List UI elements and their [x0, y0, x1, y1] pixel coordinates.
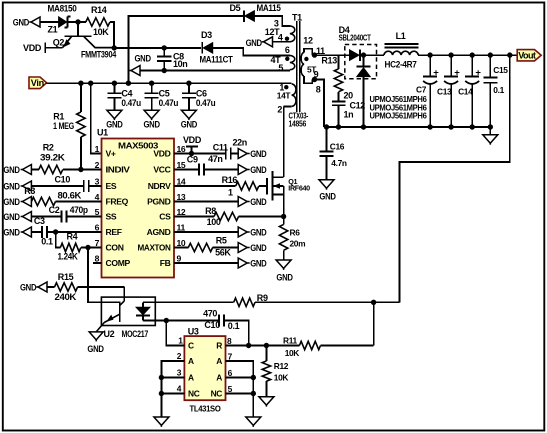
svg-text:COMP: COMP: [106, 258, 131, 268]
wire T1 pin2 to Q1 drain: [283, 106, 285, 177]
svg-text:R15: R15: [58, 272, 74, 282]
capacitor C9 47n: [174, 169, 199, 171]
stub pin8 COMP: [93, 262, 102, 264]
diode D4 SBL2040CT dual schottky: [345, 45, 377, 79]
wire Z1 anode: [40, 21, 59, 23]
phasing dot 4T: [285, 57, 289, 61]
svg-text:R2: R2: [43, 142, 54, 152]
svg-text:C15: C15: [493, 65, 508, 75]
wire LED anode to R9: [143, 301, 155, 303]
svg-text:12: 12: [177, 207, 186, 217]
svg-text:GND: GND: [250, 259, 267, 269]
svg-text:SS: SS: [106, 212, 117, 222]
svg-text:GND: GND: [181, 120, 198, 130]
svg-text:1 MEG: 1 MEG: [53, 121, 74, 131]
ground GND of opto emitter: [89, 332, 103, 340]
svg-text:MOC217: MOC217: [122, 329, 149, 339]
wire Vout rail: [418, 54, 517, 56]
node Vout rail: [488, 52, 493, 57]
transformer T1 core: [296, 21, 298, 112]
svg-text:U3: U3: [188, 326, 199, 336]
winding 4T pins 6-5: [290, 55, 295, 69]
svg-text:0.1: 0.1: [228, 321, 240, 331]
node Vout rail: [470, 52, 475, 57]
power VDD at pin16: [174, 153, 225, 155]
ground GND pin4: [21, 201, 23, 203]
wire R15 to opto collector: [123, 287, 125, 301]
ground GND of R6: [276, 260, 291, 268]
svg-text:4: 4: [95, 192, 100, 202]
wire LED cathode out: [143, 320, 166, 322]
svg-text:R12: R12: [274, 361, 289, 371]
resistor R14 10K: [78, 21, 86, 23]
svg-text:GND: GND: [144, 120, 161, 130]
svg-text:R4: R4: [67, 232, 78, 242]
winding 5T pins 12-11-9-8 secondary: [301, 52, 304, 76]
wire CON node to opto base: [88, 248, 101, 303]
svg-text:FB: FB: [160, 258, 171, 268]
svg-text:C13: C13: [437, 86, 452, 96]
svg-text:C10: C10: [204, 320, 220, 330]
svg-text:UPMOJ561MPH6: UPMOJ561MPH6: [370, 112, 428, 121]
svg-text:GND: GND: [319, 192, 336, 202]
ground GND pin6: [21, 231, 23, 233]
resistor R11 10K: [299, 341, 320, 349]
ground GND at T1 pin4: [262, 41, 264, 43]
ground GND of R15: [36, 286, 38, 288]
svg-text:GND: GND: [13, 18, 30, 28]
node Q1 source / CS: [281, 214, 286, 219]
svg-text:NC: NC: [188, 389, 200, 399]
svg-text:15: 15: [177, 160, 186, 170]
svg-text:+: +: [454, 67, 460, 78]
wire Vin rail: [47, 82, 292, 84]
svg-text:GND: GND: [250, 149, 267, 159]
node R1/R2/INDIV: [78, 167, 83, 172]
node pin9: [312, 77, 317, 82]
svg-text:14: 14: [177, 177, 186, 187]
svg-text:FMMT3904: FMMT3904: [81, 50, 116, 60]
ground GND pin11: [174, 231, 238, 233]
svg-text:C11: C11: [213, 142, 228, 152]
capacitor C10 470/0.1 feedback: [166, 320, 219, 322]
svg-text:1n: 1n: [344, 109, 354, 119]
svg-text:GND: GND: [250, 165, 267, 175]
svg-text:8: 8: [95, 254, 100, 264]
resistor R1 1MEG: [80, 83, 82, 112]
svg-text:IRF640: IRF640: [288, 183, 310, 192]
transistor Q1 IRF640: [266, 178, 268, 195]
svg-text:GND: GND: [135, 54, 152, 64]
svg-text:GND: GND: [3, 197, 20, 207]
svg-text:14856: 14856: [289, 119, 307, 129]
svg-text:MA8150: MA8150: [48, 4, 77, 14]
svg-text:GND: GND: [3, 182, 20, 192]
resistor R4 1.24K: [56, 232, 61, 248]
svg-text:D3: D3: [201, 30, 212, 40]
ground GND of C8 / T1 pin5 line: [129, 70, 131, 72]
capacitor C6 0.47u: [188, 83, 190, 93]
resistor R9: [155, 301, 233, 303]
svg-text:L1: L1: [396, 31, 406, 41]
wire D4 to L1: [360, 54, 384, 56]
ground GND pin5: [21, 216, 23, 218]
node C4: [112, 81, 117, 86]
node Z1/R14/Q2-base: [75, 19, 80, 24]
node ground rail: [361, 124, 366, 129]
node R14/Q2-collector: [112, 45, 117, 50]
node CON/R4/opto: [85, 245, 90, 250]
node Vout rail: [507, 52, 512, 57]
svg-text:8: 8: [316, 85, 321, 95]
wire D5 anode to T1 pin 3: [254, 16, 290, 26]
svg-text:4.7n: 4.7n: [331, 158, 347, 168]
svg-text:100: 100: [207, 217, 221, 227]
node top-rail riser: [126, 81, 131, 86]
ground GND pin13: [174, 201, 238, 203]
ground GND pin3: [21, 185, 23, 187]
node R9/R11 branch: [371, 300, 376, 305]
capacitor C13 electrolytic 561u: [450, 55, 452, 76]
svg-text:U1: U1: [97, 128, 108, 138]
svg-text:SBL2040CT: SBL2040CT: [339, 33, 372, 43]
ground GND pin15: [238, 165, 247, 175]
node Vout rail: [427, 52, 432, 57]
node C8 bottom: [162, 68, 167, 73]
resistor R15 240K: [48, 286, 55, 288]
svg-text:8: 8: [227, 336, 232, 346]
node R12: [264, 343, 269, 348]
svg-text:HC2-4R7: HC2-4R7: [385, 60, 417, 70]
wire Z1 cathode to node: [68, 21, 78, 23]
svg-text:CS: CS: [159, 212, 171, 222]
svg-text:6: 6: [285, 45, 290, 55]
svg-text:5: 5: [228, 384, 233, 394]
svg-text:MA115: MA115: [257, 3, 281, 13]
svg-text:C16: C16: [330, 141, 345, 151]
svg-text:C10: C10: [55, 175, 71, 185]
svg-text:GND: GND: [250, 243, 267, 253]
svg-text:GND: GND: [246, 38, 263, 48]
wire GND line to T1 pin 5: [140, 70, 290, 72]
svg-text:R6: R6: [290, 227, 301, 237]
opto LED: [142, 302, 144, 307]
wire R14 right lead down: [110, 22, 114, 48]
transistor Q2 FMMT3904: [77, 22, 79, 36]
winding 14T pins 1-2 primary: [292, 84, 296, 107]
ground GND of C4: [107, 110, 122, 118]
wire U3 pins 2-3-4 tie to ground: [161, 361, 184, 417]
wire secondary ground rail: [324, 126, 490, 128]
resistor R3 80.6K: [31, 197, 55, 205]
svg-text:+: +: [475, 67, 481, 78]
capacitor C16 4.7n: [326, 127, 328, 151]
svg-text:Z1: Z1: [48, 25, 58, 35]
svg-text:R9: R9: [257, 293, 268, 303]
wire Vout feedback to R9 line: [400, 55, 510, 302]
ground GND of U3 right pins: [246, 417, 261, 425]
node C8 top: [162, 45, 167, 50]
resistor R8 100: [174, 216, 214, 218]
svg-text:10: 10: [177, 238, 186, 248]
svg-text:C2: C2: [49, 205, 60, 215]
svg-text:GND: GND: [3, 212, 20, 222]
svg-text:7: 7: [95, 238, 100, 248]
svg-text:5: 5: [278, 63, 283, 73]
node pin11: [312, 52, 317, 57]
svg-text:39.2K: 39.2K: [40, 152, 65, 162]
svg-text:GND: GND: [3, 165, 20, 175]
svg-text:11: 11: [177, 223, 186, 233]
ground GND of R12: [259, 397, 274, 405]
bracket pin12 to pin11: [304, 49, 312, 56]
svg-text:+: +: [433, 67, 439, 78]
svg-text:6: 6: [228, 368, 233, 378]
ground GND pin16: [238, 149, 247, 159]
svg-text:1: 1: [228, 188, 233, 198]
node ground rail: [488, 124, 493, 129]
capacitor C4 0.47u: [113, 83, 115, 93]
diode D5 MA115: [243, 10, 245, 22]
node V+ riser: [88, 81, 93, 86]
resistor R6 20m: [283, 217, 285, 225]
svg-text:0.1: 0.1: [493, 85, 504, 95]
op-amp U1 MAX5003 controller: [102, 139, 175, 278]
resistor R12 10K: [265, 346, 267, 362]
svg-text:TL431SO: TL431SO: [190, 404, 222, 414]
svg-text:C7: C7: [416, 84, 427, 94]
svg-text:2: 2: [277, 105, 282, 115]
svg-text:Vin: Vin: [31, 78, 45, 88]
svg-text:6: 6: [95, 223, 100, 233]
svg-text:7: 7: [228, 351, 233, 361]
wire D3 anode to T1 pin 6: [213, 48, 290, 56]
svg-text:16: 16: [177, 144, 186, 154]
svg-text:R3: R3: [24, 186, 35, 196]
capacitor C5 0.47u: [151, 83, 153, 93]
svg-text:C9: C9: [187, 155, 198, 165]
svg-text:13: 13: [177, 192, 186, 202]
capacitor C2 470p: [31, 216, 61, 218]
svg-text:MA111CT: MA111CT: [200, 55, 234, 65]
svg-text:R16: R16: [222, 175, 238, 185]
svg-text:22n: 22n: [233, 138, 247, 148]
svg-text:470p: 470p: [70, 205, 89, 215]
node ground rail: [448, 124, 453, 129]
ground GND of secondary rail: [489, 127, 491, 135]
svg-text:A: A: [188, 356, 194, 366]
svg-text:10K: 10K: [93, 27, 109, 37]
node R1: [78, 81, 83, 86]
ground GND pin9 FB: [174, 262, 238, 264]
phasing dot 12T: [285, 37, 289, 41]
svg-text:GND: GND: [106, 120, 123, 130]
ground GND at Z1 anode: [29, 21, 31, 23]
capacitor C8 10n: [163, 48, 165, 56]
resistor R5 56K: [174, 247, 188, 249]
capacitor C3 0.1: [31, 231, 42, 233]
capacitor C11 22n: [225, 148, 227, 160]
capacitor C10 (ES): [31, 185, 84, 187]
wire Q2 collector node to D3: [114, 47, 201, 49]
svg-text:5: 5: [95, 207, 100, 217]
svg-text:10K: 10K: [274, 373, 289, 383]
wire LED cathode to U3 pin1: [166, 321, 184, 346]
wire V+ riser to pin 1: [91, 83, 102, 153]
inductor L1 HC2-4R7: [384, 51, 418, 55]
resistor R2 39.2K: [31, 169, 38, 171]
svg-text:MAXTON: MAXTON: [138, 243, 171, 253]
svg-text:A: A: [216, 356, 222, 366]
svg-text:GND: GND: [250, 228, 267, 238]
node C5: [149, 81, 154, 86]
svg-text:FREQ: FREQ: [106, 197, 129, 207]
svg-text:3: 3: [95, 177, 100, 187]
svg-text:10n: 10n: [173, 59, 187, 69]
svg-text:GND: GND: [250, 197, 267, 207]
resistor R13 20: [338, 55, 340, 69]
capacitor C12 1n: [332, 100, 346, 102]
svg-text:GND: GND: [276, 273, 293, 283]
diode D4b freewheel: [363, 55, 365, 66]
wire U3 pins 7-6-5 tie to ground: [226, 361, 254, 417]
phasing dot 14T: [284, 85, 288, 89]
svg-text:NDRV: NDRV: [148, 181, 171, 191]
svg-text:R: R: [216, 341, 222, 351]
svg-text:12: 12: [303, 36, 313, 46]
ground GND pin10: [238, 243, 247, 253]
capacitor C14 electrolytic 561u: [471, 55, 473, 76]
svg-text:C3: C3: [34, 216, 45, 226]
regulator U3 TL431SO: [184, 336, 225, 400]
port Vout: [517, 50, 541, 61]
diode D3 MA111CT: [201, 42, 203, 54]
svg-text:AGND: AGND: [147, 227, 171, 237]
svg-text:VDD: VDD: [153, 149, 170, 159]
svg-text:INDIV: INDIV: [106, 165, 131, 175]
node ground rail: [336, 124, 341, 129]
svg-text:R5: R5: [216, 235, 227, 245]
svg-text:A: A: [216, 373, 222, 383]
svg-text:VDD: VDD: [23, 43, 42, 53]
wire top rail from Vin riser to D5: [128, 16, 243, 83]
node ground rail: [427, 124, 432, 129]
svg-text:4: 4: [177, 384, 182, 394]
svg-text:Q2: Q2: [53, 37, 65, 47]
svg-text:ES: ES: [106, 181, 117, 191]
svg-text:VCC: VCC: [153, 165, 170, 175]
svg-text:GND: GND: [87, 344, 104, 354]
svg-text:C: C: [188, 341, 194, 351]
svg-text:A: A: [188, 373, 194, 383]
svg-text:1: 1: [95, 144, 100, 154]
node LED cathode: [164, 318, 169, 323]
ground GND of C6: [181, 110, 196, 118]
node ground rail: [324, 124, 329, 129]
svg-text:VDD: VDD: [183, 135, 202, 145]
svg-text:20: 20: [344, 91, 354, 101]
node C10 riser: [246, 343, 251, 348]
svg-text:20m: 20m: [290, 238, 306, 248]
power VDD at Q2 emitter: [45, 47, 62, 49]
wire R11 to feedback node: [373, 302, 375, 345]
svg-text:0.47u: 0.47u: [159, 98, 179, 108]
svg-text:47n: 47n: [208, 154, 222, 164]
node C3/R4: [53, 229, 58, 234]
svg-text:T1: T1: [292, 13, 302, 23]
svg-text:0.1: 0.1: [41, 236, 53, 246]
opto transistor: [119, 302, 121, 322]
svg-text:2: 2: [95, 160, 100, 170]
svg-text:0.47u: 0.47u: [196, 98, 216, 108]
svg-text:V+: V+: [106, 149, 116, 159]
svg-text:PGND: PGND: [147, 197, 171, 207]
opto-coupler U2 MOC217: [101, 297, 155, 325]
svg-text:14T: 14T: [277, 91, 292, 101]
svg-text:R14: R14: [91, 5, 107, 15]
svg-text:U2: U2: [104, 329, 115, 339]
svg-text:GND: GND: [20, 283, 37, 293]
svg-text:GND: GND: [3, 228, 20, 238]
svg-text:C14: C14: [458, 86, 473, 96]
svg-text:R11: R11: [283, 336, 298, 346]
capacitor C7 electrolytic 561u: [429, 55, 431, 76]
ground GND of C5: [144, 110, 159, 118]
node C6: [186, 81, 191, 86]
svg-text:R8: R8: [205, 206, 216, 216]
svg-text:NC: NC: [211, 389, 223, 399]
ground GND of U3 left pins: [154, 417, 169, 425]
ground GND of C16: [319, 180, 334, 188]
svg-text:56K: 56K: [215, 248, 231, 258]
svg-text:R13: R13: [321, 55, 337, 65]
diode D4a forward: [350, 50, 360, 61]
svg-text:D5: D5: [230, 3, 241, 13]
svg-text:3: 3: [177, 368, 182, 378]
svg-text:10K: 10K: [285, 348, 300, 358]
phasing dot 5T: [304, 57, 308, 61]
svg-text:80.6K: 80.6K: [58, 190, 82, 200]
ground GND pin2: [21, 169, 23, 171]
node Vout rail: [448, 52, 453, 57]
svg-text:0.47u: 0.47u: [121, 98, 140, 108]
capacitor C15 0.1: [489, 55, 491, 77]
svg-text:240K: 240K: [55, 292, 77, 302]
node D4 junction: [361, 52, 366, 57]
wire pin9 to secondary ground rail: [312, 80, 324, 128]
node ground rail: [470, 124, 475, 129]
svg-text:Vout: Vout: [518, 50, 536, 60]
winding 12T pins 3-4: [290, 26, 295, 42]
svg-text:REF: REF: [106, 227, 122, 237]
bracket pin9 to pin8: [304, 76, 312, 83]
svg-text:1: 1: [178, 336, 183, 346]
svg-text:CON: CON: [106, 243, 124, 253]
svg-text:4: 4: [278, 33, 283, 43]
svg-text:9: 9: [177, 254, 182, 264]
svg-text:1.24K: 1.24K: [58, 252, 79, 262]
resistor R16 1: [174, 185, 236, 187]
port Vin: [29, 77, 47, 89]
svg-text:2: 2: [177, 351, 182, 361]
zener Z1 MA8150: [59, 17, 67, 27]
svg-text:470: 470: [203, 308, 217, 318]
wire U3 pin8 R line: [226, 345, 300, 347]
wire T1 pin11 to D4: [312, 54, 349, 56]
